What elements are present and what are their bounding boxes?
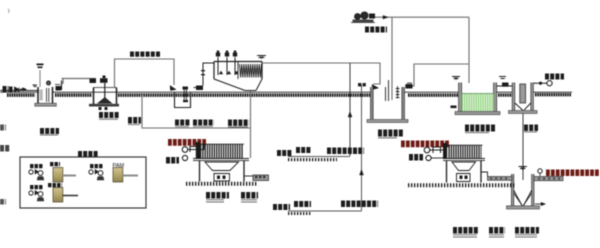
press1 discharge table	[214, 174, 230, 182]
press1 deck	[193, 158, 249, 160]
dosing pump circle 2 press2	[426, 155, 431, 160]
dosing pump circle 2 press1	[182, 155, 187, 160]
wire: press2 cake pipe	[481, 172, 488, 177]
wire: dosing discharge pipe	[63, 195, 79, 197]
up arrow on line A	[348, 112, 352, 118]
wire: settler sludge drain down to belt press 1	[250, 91, 252, 158]
label: inlet water 进水	[3, 86, 9, 93]
supernatant return launder bar	[534, 177, 563, 181]
three dosing mixers on settler	[217, 57, 219, 75]
mixer shaft	[104, 83, 106, 99]
thickener drain arrow	[535, 203, 545, 205]
ground hatch under press2 and thickener	[408, 183, 515, 187]
press1 body	[200, 161, 245, 182]
contact tank base slab	[455, 112, 500, 115]
ground hatch between equalization tank and contact tank	[408, 93, 461, 97]
check valve ticks on riser	[201, 70, 205, 71]
valve mark at top of line B	[358, 83, 361, 86]
press2 body	[447, 161, 482, 183]
arrow into equalization tank	[170, 86, 176, 91]
transfer pump blob	[502, 83, 509, 87]
wire: drain line from grade to sludge line	[142, 95, 251, 128]
red label: sludge feed note press2	[401, 140, 449, 147]
ground hatch center run	[118, 93, 370, 97]
settler hopper funnel	[214, 79, 262, 91]
press2 discharge table	[457, 174, 471, 182]
feed pipe bar into press2 hopper	[443, 143, 447, 159]
wire: transfer pipe to secondary clarifier	[497, 85, 513, 87]
wire: leader line group1	[288, 156, 350, 158]
lift pump on grade before settler	[196, 86, 203, 91]
inlet box on mixing tank	[90, 79, 97, 84]
small triangle marks in flocculation zone	[219, 71, 223, 74]
press1 hopper trapezoid	[205, 162, 239, 171]
dosing pump symbols	[89, 170, 93, 174]
label: 加药间	[78, 151, 98, 157]
sludge thickener tank 污泥浓缩池	[511, 174, 513, 206]
equalization tank 调节池	[175, 93, 191, 108]
coagulation mixing tank	[94, 88, 117, 105]
dosing pump circle 1 press1	[182, 147, 188, 153]
wire: pump discharge line to mixing tank	[62, 78, 97, 80]
press2 deck	[443, 158, 485, 160]
sludge cart	[253, 175, 269, 181]
label: 接触氧化池	[465, 125, 495, 132]
label: 干泥泵 press2	[409, 154, 423, 161]
hatch under group2 line	[288, 212, 311, 215]
wire: gravity overflow line 自流进入调节池	[115, 59, 175, 87]
label: 锅盐水 group1	[296, 147, 311, 153]
label: Roots blower 罗茨风机	[365, 27, 387, 33]
label: 搅拌室	[128, 117, 141, 124]
label: 板框压滤机1	[206, 192, 229, 199]
chemical tank	[53, 168, 63, 183]
label: 水平距离 group1	[277, 150, 292, 156]
up arrow on line B	[360, 170, 364, 176]
thickener cone	[514, 191, 532, 206]
outfall circle	[547, 81, 552, 86]
center feed tube	[520, 84, 526, 103]
dosing pump symbols	[29, 191, 33, 195]
dosing pump circle 1 press2	[424, 147, 430, 153]
label: 自流去调解气调节点 group2	[341, 201, 378, 208]
ground hatch between contact tank and secondary clarifier	[498, 93, 512, 96]
edge label 3	[0, 199, 6, 205]
label: 自流排水 group2	[294, 201, 311, 207]
supernatant return pump circle	[538, 169, 542, 173]
wire: air drop to contact oxidation tank	[468, 17, 470, 83]
wire: dosing line into press2	[430, 146, 446, 150]
wire: press1 cake line	[244, 175, 253, 177]
water level mark at thickener	[519, 167, 528, 169]
belt press 2 dewatering machine	[449, 146, 482, 159]
mixing tank base slab	[89, 104, 119, 107]
wire: air main from blower	[375, 16, 469, 18]
svg-text:PAM: PAM	[113, 163, 125, 169]
label: 污泥浓缩池2	[453, 227, 479, 234]
label: 调解气调节池	[378, 130, 403, 137]
wire: grade line (main process level)	[0, 91, 39, 93]
cake conveyor bar	[488, 177, 513, 181]
label: 自流进入调节池	[130, 52, 161, 57]
small box symbol press1	[190, 147, 197, 153]
belt press 1 dewatering machine	[200, 145, 244, 159]
wire: clarifier sludge drop pipe	[522, 114, 524, 181]
ground hatch under press1	[186, 182, 257, 186]
lift pump after screen tank	[56, 86, 62, 91]
internal drop pipes in tank	[385, 87, 387, 101]
inclined tube media hatch	[240, 64, 262, 78]
label: 自流去调解气调节点 group1	[327, 148, 364, 155]
edge label 2	[0, 145, 10, 152]
chemical tank	[113, 168, 123, 183]
label: 污泥脱水机	[515, 227, 539, 234]
secondary clarifier 二沉池	[512, 83, 515, 111]
chemical tank	[53, 188, 63, 203]
wire: leader line group2	[288, 210, 362, 212]
label: 去市政管网	[545, 74, 564, 80]
label: inclined settler 斜管沉淀池	[228, 120, 249, 127]
edge label 1	[0, 125, 6, 131]
clarifier cone	[515, 103, 531, 110]
valve symbol on inlet pipe	[9, 87, 13, 93]
wire: settler effluent gravity line	[262, 63, 380, 84]
wire: pump riser to inclined-tube settler	[203, 63, 214, 86]
wire: dosing discharge pipe	[63, 175, 77, 177]
air valve at tank entry	[406, 84, 413, 89]
wire: air branch tee	[405, 64, 469, 86]
motor on screen tank	[47, 81, 51, 85]
aerator element	[397, 86, 399, 98]
screen channel tank	[38, 87, 53, 104]
label: 螺杆泵5	[489, 227, 505, 234]
flow arrow on inlet	[20, 88, 26, 90]
submersible pump in equalization tank	[183, 89, 185, 102]
ground hatch right of secondary clarifier	[535, 93, 571, 96]
ground hatch between tank1 and mixing tank	[55, 93, 92, 97]
label: equalization tank 调节池	[175, 120, 190, 126]
clarifier base slab	[509, 111, 538, 114]
water level mark at clarifier	[499, 77, 506, 79]
green biofill media	[462, 94, 494, 112]
label: pH调节仪	[40, 128, 59, 134]
wire: effluent line	[533, 82, 547, 84]
junction dot	[539, 82, 542, 85]
thickener base slab	[507, 206, 540, 209]
wire: dosing line into press1	[188, 144, 204, 150]
arrow into equalization-aeration tank	[372, 85, 379, 90]
mixer impeller cone	[98, 98, 112, 104]
label: supernatant return 上清液回流至调解气调节点 (red)	[546, 170, 599, 177]
water level mark contact tank	[452, 77, 460, 79]
faint corner mark top-left	[8, 9, 9, 13]
label: 螺杆泵2	[241, 192, 258, 199]
label: sewage lift pump 污水提升泵	[193, 120, 214, 126]
ground hatch left of screen tank	[7, 93, 35, 97]
label: 干泥泵 press1	[166, 157, 179, 164]
wire: vertical drain line B	[361, 85, 363, 211]
Roots blower unit	[355, 14, 361, 20]
press2 hopper trapezoid	[452, 162, 476, 171]
inclined tube settler tank 斜管沉淀池	[214, 62, 262, 80]
small box symbol press2	[433, 147, 441, 153]
red label: sludge feed note press1	[168, 139, 206, 146]
wire: air drop into equalization-aeration tank	[391, 17, 393, 100]
equalization aeration tank 调解气调节池	[370, 87, 373, 119]
contact oxidation tank 接触氧化池	[459, 83, 462, 112]
wire: vertical gravity line A	[349, 63, 351, 156]
dosing pump symbols	[29, 170, 33, 174]
hatch under group1 line	[288, 158, 337, 161]
label: 水平距离 group2	[273, 204, 290, 210]
water level mark tank1	[33, 85, 38, 87]
label: mixing tank 混凝搅拌池	[99, 112, 119, 118]
drain tick left of contact tank	[451, 106, 457, 109]
wire: dosing discharge pipe	[123, 175, 139, 177]
water level mark on settler outlet	[257, 56, 266, 58]
chemical dosing room box 加药间	[20, 157, 146, 208]
feed pipe bar into press1 hopper	[196, 142, 200, 158]
vent pipe symbol above screen channel	[39, 70, 41, 87]
mixer motor on mixing tank	[100, 78, 108, 83]
label: 二沉池	[524, 125, 538, 132]
